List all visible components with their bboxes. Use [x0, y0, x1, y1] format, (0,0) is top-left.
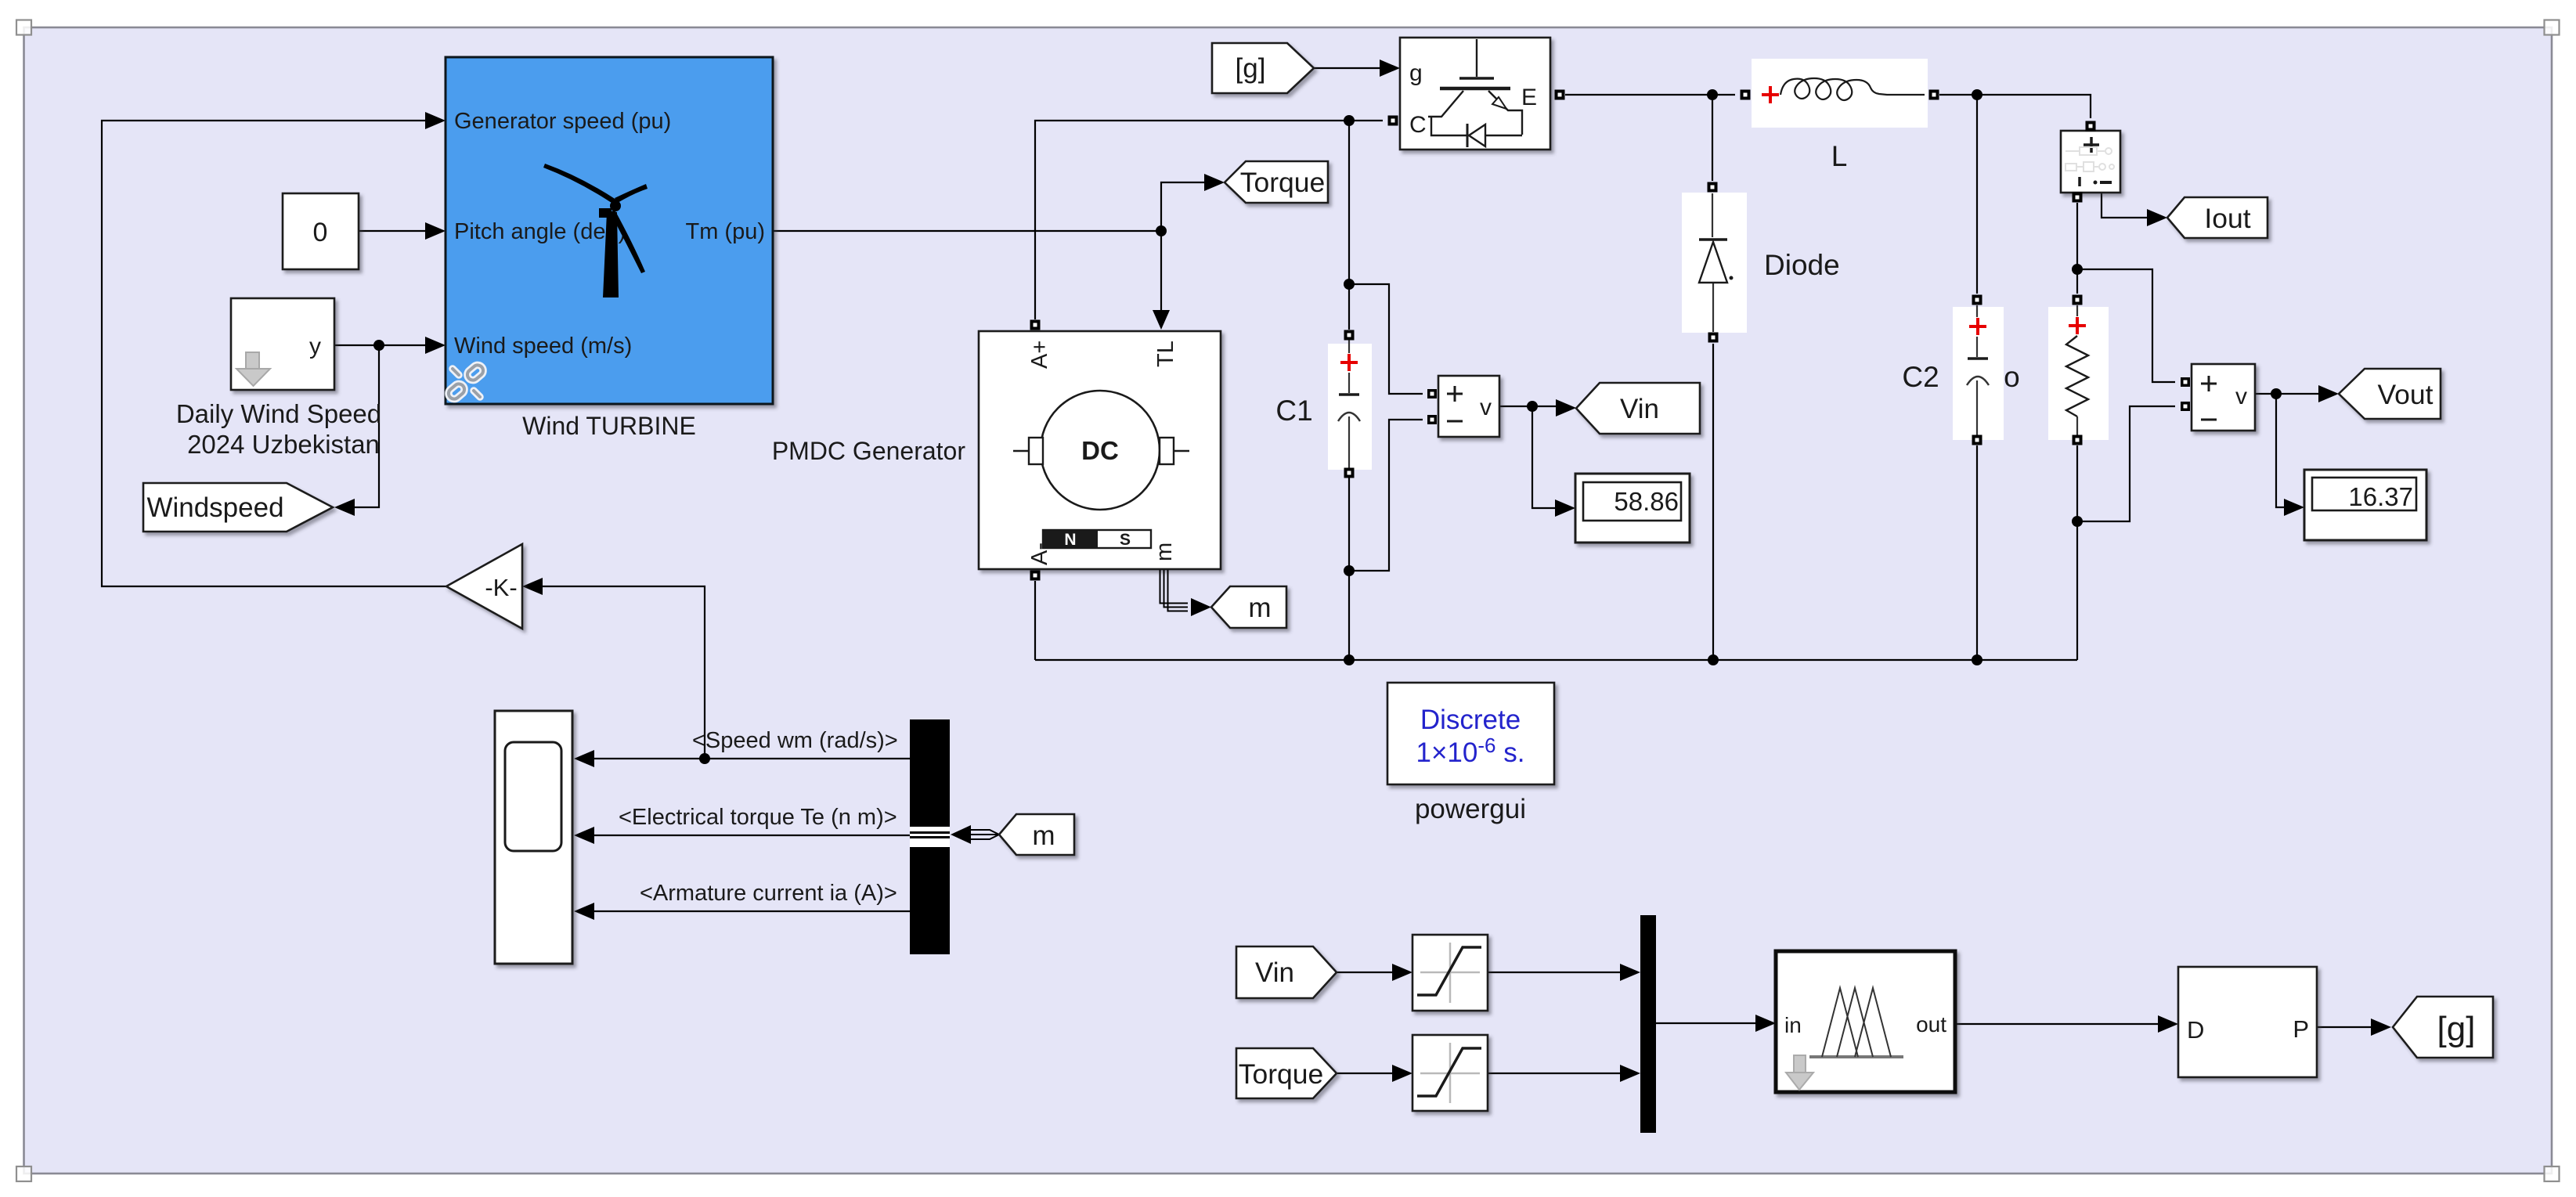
arrow into D port [2158, 1015, 2178, 1033]
goto tag Vin [1576, 383, 1700, 434]
svg-text:P: P [2293, 1015, 2309, 1043]
wire Vin node down to display [1532, 406, 1555, 508]
svg-text:y: y [309, 334, 321, 359]
svg-text:C: C [1409, 112, 1427, 138]
node Iout / Ro [2072, 264, 2083, 275]
block Display 58.86 [1575, 474, 1690, 543]
port marker Ro top [2073, 295, 2083, 305]
block Wind TURBINE [446, 57, 773, 404]
selection handle top-left [16, 20, 31, 35]
node Ro minus tap [2072, 516, 2083, 527]
svg-text:Iout: Iout [2204, 203, 2250, 234]
wire Vout voltmeter out to node [2255, 393, 2318, 395]
svg-text:Discrete: Discrete [1420, 705, 1521, 735]
block Display 16.37 [2304, 470, 2426, 540]
svg-text:out: out [1916, 1012, 1946, 1037]
wire vertical trunk C1 [1348, 121, 1350, 660]
block gain -K- [446, 544, 522, 629]
from tag Vin bottom [1236, 946, 1337, 998]
svg-text:<Electrical torque Te (n m)>: <Electrical torque Te (n m)> [619, 805, 897, 830]
wire branch down to C2 [1976, 95, 1978, 660]
svg-text:DC: DC [1081, 436, 1119, 465]
wire node to Vout voltmeter minus [2077, 406, 2175, 521]
arrow into Wind speed port [425, 337, 446, 354]
goto tag Iout [2167, 197, 2268, 238]
svg-text:Vin: Vin [1255, 957, 1294, 988]
right brush [1160, 438, 1174, 464]
m bus from PMDC (triple line) [1160, 570, 1189, 611]
wire Iout branch [2102, 193, 2147, 218]
gray down-arrow icon [246, 352, 259, 369]
svg-text:C1: C1 [1275, 395, 1312, 427]
block D P subsystem [2178, 967, 2317, 1077]
wire fuzzy controller to D P subsystem [1955, 1023, 2158, 1025]
node Vin measurement out [1527, 401, 1538, 412]
wire L out across to current sensor [1939, 95, 2091, 118]
arrow into saturation1 [1392, 964, 1412, 981]
selection handle top-right [2545, 20, 2560, 35]
IGBT emitter arrow [1492, 97, 1506, 109]
wire A- down to ground bus [1034, 581, 1036, 660]
wire mux to fuzzy controller [1656, 1022, 1755, 1024]
svg-text:S: S [1120, 531, 1131, 549]
svg-text:58.86: 58.86 [1614, 487, 1679, 516]
left brush [1013, 450, 1029, 452]
arrow down into TL port [1153, 310, 1170, 330]
IGBT symbol [1428, 39, 1522, 147]
svg-text:m: m [1152, 543, 1177, 561]
broken library link icon [446, 363, 485, 402]
svg-text:2024 Uzbekistan: 2024 Uzbekistan [187, 430, 380, 459]
magnet bar [1043, 530, 1098, 548]
turbine icon nacelle [599, 208, 612, 218]
port marker current sensor top [2086, 121, 2096, 132]
arrow into Pitch angle port [425, 222, 446, 240]
port marker Vout voltmeter minus [2181, 402, 2190, 411]
wire saturation2 to mux [1488, 1073, 1620, 1074]
wire Daily Wind Speed y output to Wind speed input [334, 344, 425, 346]
svg-text:N: N [1064, 531, 1076, 549]
from tag [g] top [1212, 43, 1314, 93]
svg-text:powergui: powergui [1415, 794, 1526, 824]
svg-text:16.37: 16.37 [2348, 482, 2413, 511]
wire Vin from-tag to saturation1 [1337, 972, 1392, 973]
svg-text:Torque: Torque [1240, 167, 1326, 198]
wire Torque from-tag to saturation2 [1337, 1073, 1392, 1074]
node bus diode [1708, 654, 1719, 665]
wire node to Torque goto [1161, 182, 1204, 231]
svg-text:C2: C2 [1902, 361, 1939, 393]
wire D P subsystem to [g] goto [2317, 1026, 2371, 1028]
svg-text:Vout: Vout [2377, 379, 2433, 410]
arrow into Generator speed port [425, 112, 446, 129]
svg-text:A+: A+ [1027, 341, 1052, 369]
wire bottom bus [1035, 659, 2077, 661]
arrow into saturation2 [1392, 1065, 1412, 1082]
resistor Ro [2048, 305, 2109, 440]
node wind speed branch [373, 340, 384, 351]
goto tag Torque top [1225, 161, 1328, 203]
wire feedback loop gain to Generator speed input [102, 121, 446, 586]
node Vout measurement out [2271, 388, 2282, 399]
port marker diode top [1708, 182, 1718, 193]
wire diode branch down [1712, 95, 1713, 660]
svg-text:Wind speed (m/s): Wind speed (m/s) [454, 334, 632, 359]
svg-text:PMDC Generator: PMDC Generator [772, 437, 966, 465]
wire constant 0 to Pitch angle input [359, 230, 425, 232]
turbine icon blade up-left [543, 164, 619, 206]
arrow into scope input 3 [574, 903, 594, 920]
svg-text:Windspeed: Windspeed [146, 492, 283, 523]
DC motor circle [1041, 391, 1160, 510]
wire C1 node to voltmeter plus [1349, 284, 1423, 394]
wire bus selector out3 to scope [594, 910, 910, 912]
svg-text:Daily Wind Speed: Daily Wind Speed [176, 399, 381, 428]
selection handle bottom-left [16, 1166, 31, 1181]
svg-text:Wind TURBINE: Wind TURBINE [522, 412, 696, 440]
block Scope [495, 711, 572, 964]
block Current Measurement [2061, 131, 2120, 193]
block Voltage Measurement Vout [2192, 364, 2255, 431]
node speed wm branch [699, 753, 710, 764]
capacitor C2 [1953, 305, 2004, 440]
arrow into Vout goto tag [2318, 385, 2339, 402]
arrow into bus selector [951, 825, 971, 844]
block Constant 0 [283, 193, 359, 269]
port marker IGBT C [1388, 116, 1398, 126]
node Tm / TL [1156, 225, 1167, 236]
block Mux [1640, 915, 1656, 1133]
svg-text:in: in [1784, 1013, 1802, 1037]
node C1 plus tap [1344, 279, 1355, 290]
svg-text:TL: TL [1153, 341, 1178, 367]
port marker PMDC A+ [1030, 320, 1041, 330]
from tag Torque bottom [1236, 1048, 1337, 1098]
arrow into scope input 2 [574, 827, 594, 844]
wire Vout node down to display [2276, 394, 2284, 507]
svg-text:Generator speed (pu): Generator speed (pu) [454, 109, 671, 134]
port marker diode bottom [1708, 333, 1719, 343]
svg-text:<Armature current ia (A)>: <Armature current ia (A)> [640, 881, 897, 906]
port marker voltmeter minus [1427, 415, 1437, 424]
wire branch down to Windspeed goto [355, 345, 379, 507]
block powergui [1387, 683, 1554, 784]
block Fuzzy Logic Controller [1776, 951, 1955, 1092]
arrow into Torque goto tag [1204, 174, 1225, 191]
wire node down to TL port [1160, 231, 1162, 312]
arrow into display 16.37 [2284, 499, 2304, 516]
svg-text:1×10-6 s.: 1×10-6 s. [1416, 734, 1525, 768]
diode block [1682, 193, 1747, 333]
turbine icon blade down-right [610, 210, 645, 273]
block PMDC Generator [979, 331, 1221, 569]
svg-text:Vin: Vin [1620, 394, 1659, 424]
arrow into Windspeed goto tag [334, 499, 355, 516]
port marker L right [1929, 90, 1939, 100]
block Saturation 2 [1412, 1035, 1488, 1111]
node bus C1 [1344, 654, 1355, 665]
wire IGBT E to L [1565, 94, 1735, 96]
wire [g] tag to IGBT g [1314, 67, 1380, 69]
arrow into gain input [522, 578, 543, 595]
node bus C2 [1972, 654, 1983, 665]
wire bus selector out1 to scope [594, 758, 910, 759]
selection handle bottom-right [2545, 1166, 2560, 1181]
wire bus selector out2 to scope [594, 835, 910, 836]
block Daily Wind Speed (From Workspace) [231, 298, 334, 390]
bus wire m to bus selector [971, 830, 999, 839]
goto tag Vout [2339, 369, 2441, 419]
node C1 minus tap [1344, 565, 1355, 576]
turbine icon hub [610, 200, 621, 211]
arrow into Vin goto tag [1556, 399, 1576, 416]
port marker C1 bottom [1344, 468, 1355, 478]
svg-text:[g]: [g] [1236, 53, 1266, 84]
svg-text:v: v [2235, 384, 2247, 409]
goto tag Windspeed [143, 483, 333, 532]
port marker C2 top [1972, 295, 1983, 305]
port marker PMDC A- [1030, 571, 1041, 581]
wire Tm output to TL node [773, 230, 1161, 232]
wire gain input from node [543, 586, 705, 759]
block Bus Selector [910, 719, 950, 954]
turbine icon blade right [615, 184, 648, 203]
svg-text:Pitch angle (deg): Pitch angle (deg) [454, 219, 626, 244]
wire voltmeter v out to Vin node [1499, 406, 1556, 407]
block IGBT [1400, 38, 1550, 150]
from tag m (bus) [999, 814, 1074, 855]
arrow into fuzzy in [1755, 1015, 1776, 1032]
svg-text:v: v [1480, 395, 1492, 420]
goto tag m (PMDC measurement) [1211, 586, 1286, 628]
svg-text:g: g [1409, 60, 1423, 86]
node C line / C1 trunk [1344, 115, 1355, 126]
port marker L left [1741, 90, 1751, 100]
arrow into IGBT g port [1380, 59, 1400, 77]
svg-text:E: E [1521, 85, 1537, 110]
svg-text:m: m [1248, 593, 1271, 623]
svg-text:-K-: -K- [485, 574, 517, 601]
port marker IGBT E [1555, 90, 1565, 100]
svg-text:Diode: Diode [1764, 249, 1840, 281]
wire C1 node to voltmeter minus [1349, 420, 1423, 571]
svg-text:L: L [1831, 140, 1848, 172]
wire saturation1 to mux [1488, 972, 1620, 973]
arrow into display 58.86 [1555, 499, 1575, 517]
block Voltage Measurement Vin [1438, 376, 1499, 437]
port marker voltmeter plus [1427, 389, 1437, 398]
block Saturation 1 [1412, 935, 1488, 1011]
port marker C2 bottom [1972, 435, 1983, 445]
svg-text:Tm (pu): Tm (pu) [686, 219, 766, 244]
node C2 top [1972, 89, 1983, 100]
gray download arrow [1794, 1055, 1806, 1073]
port marker Ro bottom [2073, 435, 2083, 445]
turbine icon tower [603, 212, 619, 297]
wire current sensor down to Ro [2076, 203, 2078, 660]
node diode top [1707, 89, 1718, 100]
arrow into mux input1 [1620, 964, 1640, 981]
wire node to Vout voltmeter plus [2077, 269, 2175, 382]
port marker current sensor bottom [2073, 193, 2083, 203]
arrow into Iout goto tag [2147, 209, 2167, 226]
svg-text:<Speed wm (rad/s)>: <Speed wm (rad/s)> [692, 728, 898, 753]
arrow into scope input 1 [574, 750, 594, 767]
port marker C1 top [1344, 330, 1355, 341]
wire A+ up and across to IGBT C [1035, 121, 1383, 319]
arrow into [g] bottom goto tag [2371, 1019, 2391, 1036]
goto tag [g] bottom [2393, 997, 2493, 1058]
svg-text:[g]: [g] [2437, 1010, 2476, 1048]
port marker Vout voltmeter plus [2181, 377, 2190, 387]
svg-text:0: 0 [313, 218, 328, 247]
inductor L [1752, 59, 1928, 128]
arrow into mux input2 [1620, 1065, 1640, 1082]
arrow into m goto tag [1191, 598, 1211, 616]
svg-text:m: m [1032, 820, 1055, 851]
svg-text:Torque: Torque [1239, 1058, 1324, 1090]
capacitor C1 [1328, 340, 1372, 470]
svg-text:D: D [2187, 1016, 2204, 1044]
